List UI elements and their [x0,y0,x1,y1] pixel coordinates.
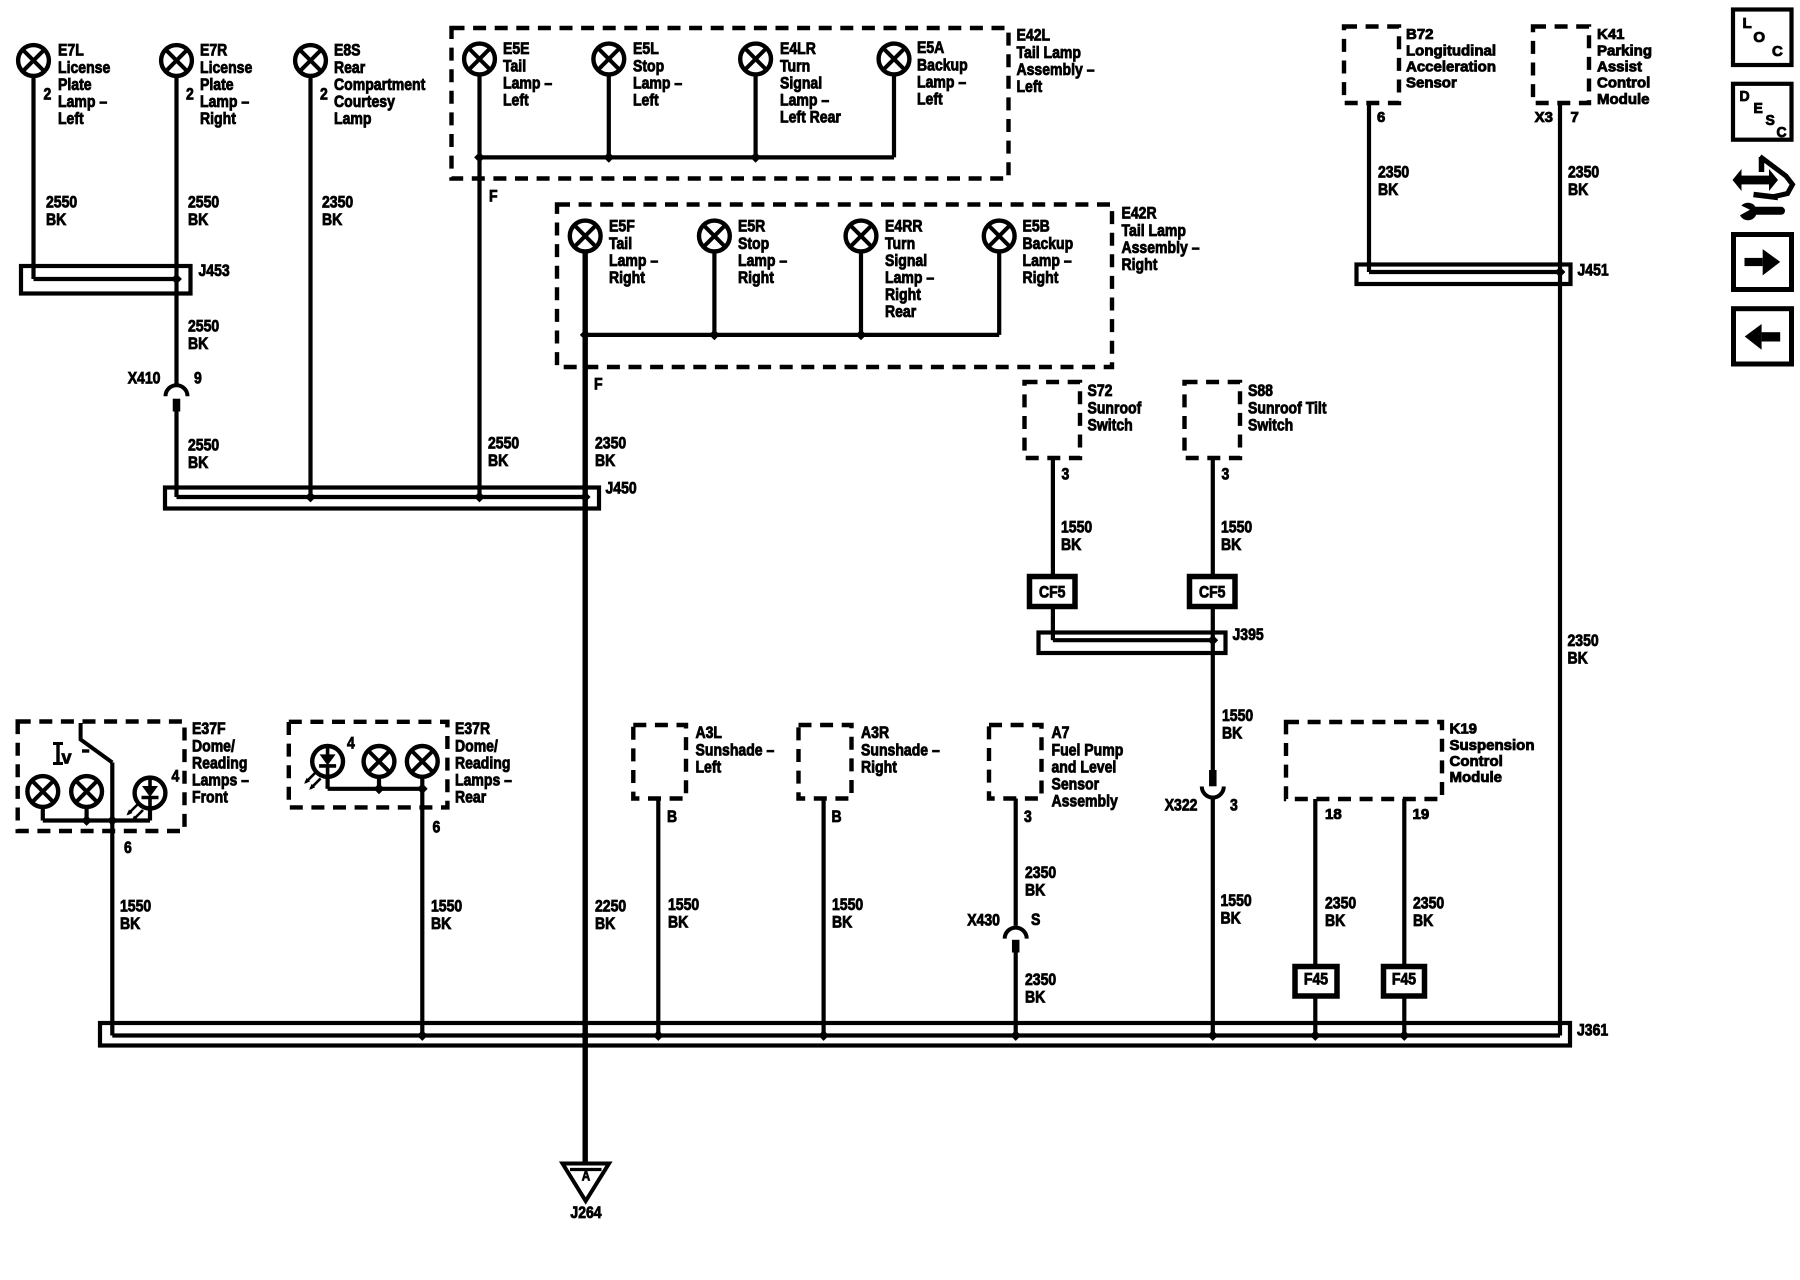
svg-text:BK: BK [188,453,209,472]
lamp E37R bulb 2 [407,746,438,777]
wire A3L pin B to J361 [653,799,699,1041]
svg-text:BK: BK [188,334,209,353]
svg-text:2: 2 [320,85,328,104]
svg-text:Assembly: Assembly [1052,792,1119,811]
wire S88 pin 3 to CF5 [1213,458,1252,577]
svg-text:S: S [1031,910,1040,929]
svg-text:F: F [594,375,603,394]
svg-text:CF5: CF5 [1039,583,1066,602]
component box E37R Dome/Reading Lamps - Rear [289,719,512,807]
svg-text:B: B [667,807,677,826]
wires lamps to E42L bus [609,74,894,157]
svg-text:2: 2 [186,85,194,104]
svg-text:O: O [1753,29,1765,46]
splice pack J451 [1357,261,1609,284]
svg-text:F45: F45 [1304,970,1328,989]
sidebar back arrow button [1734,309,1792,364]
junction dot J453 [171,274,182,285]
junction dot E8S-J450 [305,492,316,503]
svg-text:9: 9 [194,369,202,388]
lamp E5E Tail Lamp - Left [464,39,552,109]
sidebar DESC button [1733,84,1792,141]
ground trunk wire E5F pin F down to J264 [580,251,626,1163]
svg-text:E: E [1754,101,1764,117]
svg-text:BK: BK [1325,911,1346,930]
connector X322 [1165,770,1238,815]
component box B72 Longitudinal Acceleration Sensor [1344,27,1496,104]
svg-text:7: 7 [1571,110,1579,126]
svg-text:Left: Left [633,91,659,110]
svg-text:Parking: Parking [1597,43,1652,59]
svg-text:C: C [1777,125,1788,141]
svg-text:K19: K19 [1450,722,1478,738]
svg-text:J451: J451 [1578,261,1609,280]
switch inside E37F [53,723,112,767]
svg-text:BK: BK [1025,880,1046,899]
svg-text:BK: BK [1378,180,1399,199]
svg-text:BK: BK [1061,535,1082,554]
svg-text:Switch: Switch [1248,415,1293,434]
svg-text:3: 3 [1230,796,1238,815]
lamp E7R License Plate Lamp - Right [161,41,252,128]
svg-text:BK: BK [1568,180,1589,199]
wire X430 to J361 [1010,953,1056,1041]
svg-text:3: 3 [1024,807,1032,826]
bus wire inside E42R [585,330,999,341]
component box S72 Sunroof Switch [1025,381,1142,458]
svg-text:Left Rear: Left Rear [780,108,841,127]
component box K19 Suspension Control Module [1286,722,1535,799]
svg-text:Right: Right [200,109,236,128]
wire S88 CF5 through J395 to X322 [1207,607,1253,771]
svg-text:Switch: Switch [1088,415,1133,434]
svg-text:F: F [489,187,498,206]
wire E5E pin F to J450 [474,74,519,502]
svg-text:Lamp: Lamp [334,109,372,128]
svg-text:BK: BK [595,914,616,933]
lamp E4RR Turn Signal Lamp - Right Rear [846,217,935,322]
component box E42R Tail Lamp Assembly - Right [557,204,1200,367]
component box E42L Tail Lamp Assembly - Left [452,26,1095,179]
svg-text:Control: Control [1450,754,1503,770]
svg-text:BK: BK [431,914,452,933]
wire F45 to J361 (pin 18) [1310,996,1321,1041]
svg-text:B: B [832,807,842,826]
svg-text:Left: Left [503,91,529,110]
wires lamps to E42R bus [714,251,999,335]
svg-text:3: 3 [1222,465,1230,484]
component box A3L Sunshade - Left [633,723,774,798]
svg-text:BK: BK [488,451,509,470]
svg-text:X410: X410 [128,369,161,388]
lamp E5L Stop Lamp - Left [593,39,682,109]
bus wire inside E37R [328,775,428,794]
splice pack J395 [1039,625,1264,653]
svg-text:6: 6 [433,818,441,837]
component box S88 Sunroof Tilt Switch [1185,381,1327,458]
svg-text:BK: BK [595,451,616,470]
lamp E37F bulb 2 [71,776,102,807]
lamp E37F bulb 1 [27,776,58,807]
svg-text:3: 3 [1062,465,1070,484]
svg-text:18: 18 [1325,807,1342,823]
svg-text:19: 19 [1413,807,1430,823]
svg-text:C: C [1772,43,1783,60]
lamp E5B Backup Lamp - Right [984,217,1073,287]
lamp E7L License Plate Lamp - Left [18,41,110,128]
svg-text:Acceleration: Acceleration [1406,60,1496,76]
svg-text:Right: Right [738,268,774,287]
svg-text:BK: BK [832,912,853,931]
svg-text:A: A [582,1168,590,1184]
svg-text:J395: J395 [1233,625,1264,644]
component box K41 Parking Assist Control Module [1533,27,1652,108]
svg-text:Left: Left [1017,77,1043,96]
bus wire inside E42L [480,152,895,163]
LED E37R with pin 4 [304,734,355,790]
svg-text:4: 4 [172,767,180,786]
svg-text:Assist: Assist [1597,60,1642,76]
svg-text:L: L [1743,15,1752,32]
svg-text:Rear: Rear [455,788,487,807]
svg-text:Sensor: Sensor [1406,76,1457,92]
svg-text:6: 6 [1377,110,1385,126]
wire X410 to J450 [177,412,586,498]
svg-text:2: 2 [44,85,52,104]
ground bus J361 [100,1021,1608,1046]
svg-text:BK: BK [188,210,209,229]
LED E37F with pin 4 [127,767,180,822]
fuse F45 (right) [1384,967,1425,997]
wire X322 to J361 [1207,798,1251,1041]
splice pack J453 [21,261,230,293]
svg-text:Right: Right [1122,255,1158,274]
svg-text:X430: X430 [967,911,1000,930]
sidebar forward arrow button [1734,235,1792,290]
svg-text:v: v [62,747,72,767]
svg-text:BK: BK [1568,648,1589,667]
svg-text:Left: Left [58,109,84,128]
lamp E5F Tail Lamp - Right [570,217,658,287]
svg-text:Longitudinal: Longitudinal [1406,43,1496,59]
svg-text:Right: Right [861,757,897,776]
wire K19 pin 19 to F45 [1404,799,1444,967]
connector X430 [967,910,1040,952]
svg-text:6: 6 [124,838,132,857]
fuse F45 (left) [1295,967,1337,997]
lamp E8S Rear Compartment Courtesy Lamp [295,41,425,128]
svg-text:BK: BK [120,914,141,933]
wire CF5 to J395 [1053,607,1213,641]
svg-text:BK: BK [1221,908,1242,927]
svg-text:Front: Front [192,788,228,807]
lamp E5R Stop Lamp - Right [699,217,787,287]
junction dot J451 [1555,267,1566,278]
component box A7 Fuel Pump and Level Sensor Assembly [989,723,1123,810]
wire E37F pin 6 to J361 [112,763,1560,1036]
wire A3R pin B to J361 [818,799,863,1041]
sidebar LOC button [1733,10,1792,66]
svg-text:BK: BK [1221,535,1242,554]
wire A7 pin 3 to X430 [1016,799,1056,926]
svg-text:BK: BK [322,210,343,229]
wire E7L to J453 [34,76,177,279]
svg-text:X3: X3 [1535,110,1553,126]
svg-text:4: 4 [347,734,355,753]
component box E37F Dome/Reading Lamps - Front [18,719,249,831]
sidebar swap/tools icon [1733,157,1793,221]
svg-text:B72: B72 [1406,27,1434,43]
svg-text:J450: J450 [606,479,637,498]
svg-text:CF5: CF5 [1199,583,1226,602]
wire E8S to J450 [311,76,354,497]
lamp E5A Backup Lamp - Left [879,38,968,108]
wire K19 pin 18 to F45 [1315,799,1356,967]
lamp E37R bulb 1 [364,746,395,777]
component box A3R Sunshade - Right [799,723,940,798]
inline connector CF5 (left) [1030,577,1076,607]
svg-text:J264: J264 [570,1203,602,1222]
svg-text:Left: Left [917,90,943,109]
svg-text:BK: BK [1025,987,1046,1006]
svg-text:F45: F45 [1392,970,1416,989]
wire B72 pin 6 to J451 [1369,103,1560,272]
inline connector CF5 (right) [1190,577,1236,607]
ground symbol J264 [563,1164,610,1223]
svg-text:Module: Module [1450,770,1503,786]
wire S72 pin 3 to CF5 [1053,458,1092,577]
svg-text:X322: X322 [1165,796,1198,815]
svg-text:Module: Module [1597,92,1650,108]
wire F45 to J361 (pin 19) [1399,996,1410,1041]
connector X410 [128,369,202,412]
bus wire inside E37F [43,807,150,826]
svg-text:Rear: Rear [885,302,917,321]
wire E37R pin 6 to J361 [417,789,462,1041]
svg-text:BK: BK [1222,723,1243,742]
lamp E4LR Turn Signal Lamp - Left Rear [740,39,841,126]
svg-text:S: S [1766,113,1776,129]
svg-text:Control: Control [1597,76,1650,92]
wire E7R to X410 [177,76,220,385]
svg-text:K41: K41 [1597,27,1625,43]
svg-text:D: D [1740,89,1750,105]
svg-text:Suspension: Suspension [1450,738,1535,754]
wire K41 pin X3-7 long run to J361 [1535,103,1600,1036]
svg-text:J453: J453 [199,261,230,280]
svg-text:Right: Right [1023,268,1059,287]
svg-text:BK: BK [1413,911,1434,930]
svg-text:Right: Right [609,268,645,287]
svg-text:BK: BK [46,210,67,229]
svg-text:BK: BK [668,912,689,931]
svg-text:Left: Left [696,757,722,776]
splice pack J450 [165,479,637,509]
svg-text:J361: J361 [1577,1021,1608,1040]
